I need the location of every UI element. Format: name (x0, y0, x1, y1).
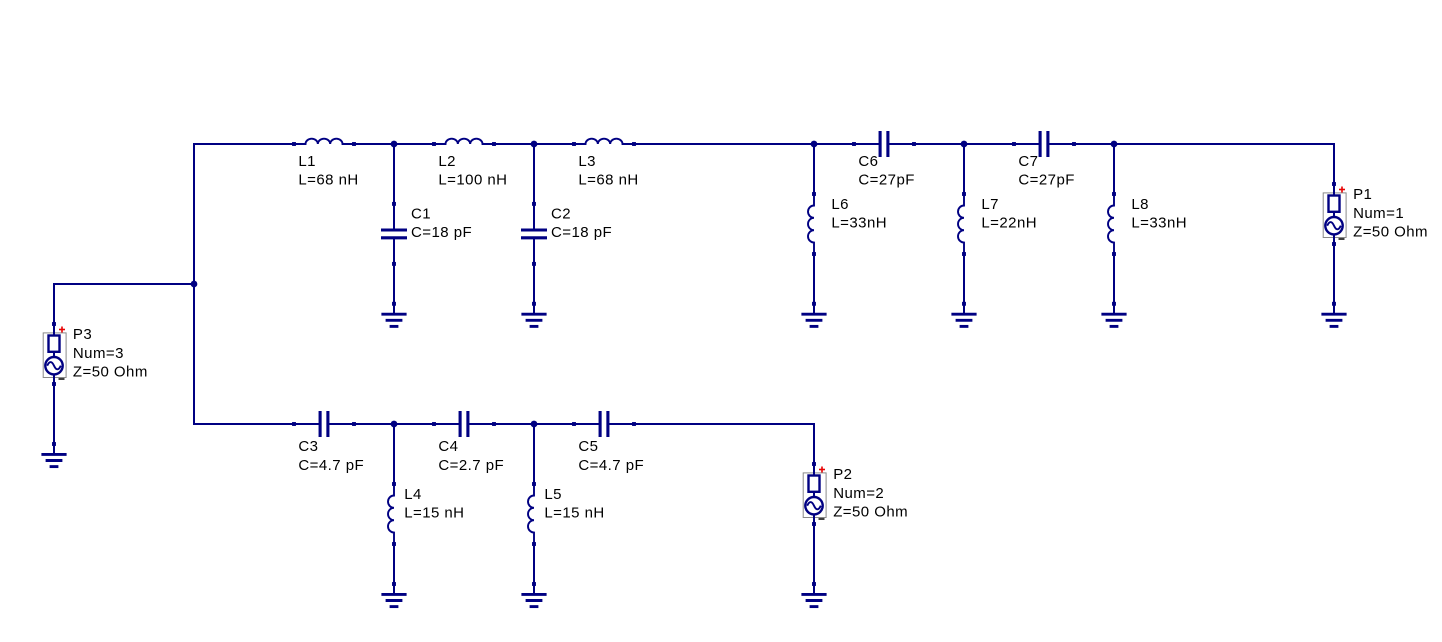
svg-text:L=15 nH: L=15 nH (404, 505, 464, 522)
svg-text:C2: C2 (551, 206, 571, 223)
wire P3 riser to feed (53, 283, 55, 324)
svg-text:C1: C1 (411, 206, 431, 223)
inductor L7 (958, 192, 966, 256)
wire P1 drop (1333, 143, 1335, 184)
wire top rail: L3 to node C (634, 143, 854, 145)
svg-text:C=18 pF: C=18 pF (551, 224, 612, 241)
svg-text:L=15 nH: L=15 nH (544, 505, 604, 522)
svg-text:L=68 nH: L=68 nH (298, 172, 358, 189)
svg-text:L2: L2 (438, 153, 456, 170)
wire bottom rail: C5 to P2 corner (634, 423, 814, 425)
svg-text:C=4.7 pF: C=4.7 pF (298, 457, 364, 474)
svg-text:C=27pF: C=27pF (1018, 172, 1074, 189)
svg-text:L1: L1 (298, 153, 316, 170)
wire L6 upper stub (813, 144, 815, 194)
junction node E (L8 tap) (1111, 141, 1118, 148)
svg-text:C3: C3 (298, 438, 318, 455)
inductor L8 (1108, 192, 1116, 256)
ground under P2 (801, 582, 826, 607)
inductor L1 (292, 139, 356, 146)
capacitor C4 (432, 411, 496, 437)
svg-text:C=18 pF: C=18 pF (411, 224, 472, 241)
svg-text:C=4.7 pF: C=4.7 pF (578, 457, 644, 474)
wire bottom rail: C4 to C5 (494, 423, 574, 425)
wire L5 lower stub (533, 544, 535, 584)
capacitor C5 (572, 411, 636, 437)
wire L4 upper stub (393, 424, 395, 484)
svg-text:C=27pF: C=27pF (858, 172, 914, 189)
svg-text:P1: P1 (1353, 186, 1372, 203)
svg-text:L=33nH: L=33nH (831, 215, 887, 232)
wire L6 lower stub (813, 254, 815, 304)
wire top rail: C7 to P1 corner (1074, 143, 1334, 145)
junction node H (L5 tap) (531, 421, 538, 428)
junction node G (L4 tap) (391, 421, 398, 428)
wire bottom rail: C3 to C4 (354, 423, 434, 425)
wire L8 lower stub (1113, 254, 1115, 304)
inductor L4 (388, 482, 396, 546)
wire bottom rail: bus corner to C3 (193, 423, 294, 425)
svg-text:L3: L3 (578, 153, 596, 170)
svg-text:C4: C4 (438, 438, 458, 455)
ground under P3 (41, 442, 66, 467)
junction node C (L6 tap) (811, 141, 818, 148)
svg-text:L=68 nH: L=68 nH (578, 172, 638, 189)
junction node D (L7 tap) (961, 141, 968, 148)
capacitor C1 (381, 202, 407, 266)
ground under L5 (521, 582, 546, 607)
wire L7 upper stub (963, 144, 965, 194)
svg-text:Z=50 Ohm: Z=50 Ohm (1353, 224, 1428, 241)
svg-text:Num=1: Num=1 (1353, 205, 1404, 222)
svg-text:C6: C6 (858, 153, 878, 170)
inductor L5 (528, 482, 536, 546)
ground under L6 (801, 302, 826, 327)
wire P3 to ground (53, 384, 55, 444)
svg-text:L5: L5 (544, 486, 562, 503)
capacitor C7 (1012, 131, 1076, 157)
svg-text:L=100 nH: L=100 nH (438, 172, 507, 189)
ground under P1 (1321, 302, 1346, 327)
svg-text:P3: P3 (73, 326, 92, 343)
wire L8 upper stub (1113, 144, 1115, 194)
inductor L6 (808, 192, 816, 256)
wire C1 lower stub (393, 264, 395, 304)
wire L4 lower stub (393, 544, 395, 584)
junction node B (C2 tap) (531, 141, 538, 148)
wire top rail: L1 to L2 (354, 143, 434, 145)
wire left vertical bus (193, 143, 195, 424)
ground under C1 (381, 302, 406, 327)
ground under L7 (951, 302, 976, 327)
capacitor C2 (521, 202, 547, 266)
wire C2 upper stub (533, 144, 535, 204)
ground under L4 (381, 582, 406, 607)
svg-text:Num=3: Num=3 (73, 345, 124, 362)
capacitor C3 (292, 411, 356, 437)
wire L7 lower stub (963, 254, 965, 304)
wire top rail: C6 to C7 (914, 143, 1014, 145)
wire C1 upper stub (393, 144, 395, 204)
inductor L2 (432, 139, 496, 146)
wire top rail: L2 to L3 (494, 143, 574, 145)
svg-text:L6: L6 (831, 196, 849, 213)
svg-text:Num=2: Num=2 (833, 485, 884, 502)
svg-text:L7: L7 (981, 196, 999, 213)
svg-text:P2: P2 (833, 466, 852, 483)
svg-text:C7: C7 (1018, 153, 1038, 170)
junction node A (C1 tap) (391, 141, 398, 148)
power port P2 (803, 462, 826, 526)
svg-text:L=22nH: L=22nH (981, 215, 1037, 232)
wire P2 to ground (813, 524, 815, 584)
inductor L3 (572, 139, 636, 146)
wire C2 lower stub (533, 264, 535, 304)
wire L5 upper stub (533, 424, 535, 484)
capacitor C6 (852, 131, 916, 157)
svg-text:L8: L8 (1131, 196, 1149, 213)
ground under L8 (1101, 302, 1126, 327)
wire P1 to ground (1333, 244, 1335, 304)
svg-text:L=33nH: L=33nH (1131, 215, 1187, 232)
wire top rail: bus corner to L1 (193, 143, 294, 145)
wire P2 drop (813, 423, 815, 464)
power port P1 (1323, 182, 1346, 246)
svg-text:C5: C5 (578, 438, 598, 455)
svg-text:Z=50 Ohm: Z=50 Ohm (833, 504, 908, 521)
junction node F (feed split) (191, 281, 198, 288)
wire P3 feed horizontal (54, 283, 194, 285)
svg-text:L4: L4 (404, 486, 422, 503)
svg-text:Z=50 Ohm: Z=50 Ohm (73, 364, 148, 381)
ground under C2 (521, 302, 546, 327)
power port P3 (43, 322, 66, 386)
svg-text:C=2.7 pF: C=2.7 pF (438, 457, 504, 474)
